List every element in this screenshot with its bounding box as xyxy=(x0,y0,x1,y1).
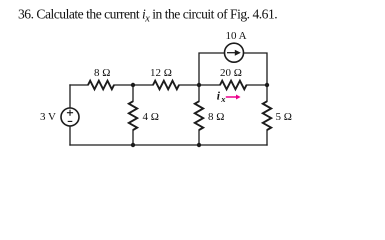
svg-text:20 Ω: 20 Ω xyxy=(220,67,242,79)
svg-text:8 Ω: 8 Ω xyxy=(208,111,224,123)
svg-text:4 Ω: 4 Ω xyxy=(143,111,159,123)
svg-text:10 A: 10 A xyxy=(226,30,247,42)
svg-text:8 Ω: 8 Ω xyxy=(94,67,110,79)
svg-text:12 Ω: 12 Ω xyxy=(150,67,172,79)
svg-text:5 Ω: 5 Ω xyxy=(276,111,292,123)
svg-text:3 V: 3 V xyxy=(40,111,56,123)
svg-text:x: x xyxy=(220,94,226,104)
svg-text:i: i xyxy=(217,90,221,102)
svg-text:36. Calculate the current ix i: 36. Calculate the current ix in the circ… xyxy=(18,7,277,25)
